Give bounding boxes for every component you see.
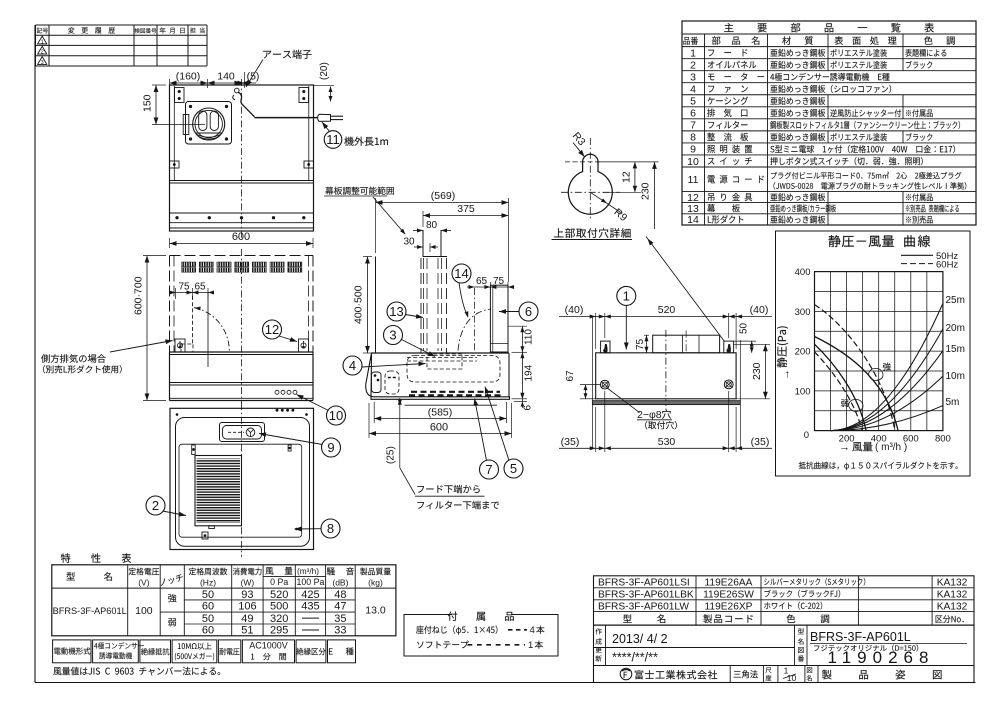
- svg-text:194: 194: [524, 364, 535, 381]
- dimension 75 65: [175, 288, 177, 299]
- power cord plug: [318, 114, 331, 121]
- svg-text:33: 33: [334, 625, 346, 637]
- detail title: [554, 228, 631, 238]
- svg-text:KA132: KA132: [937, 589, 968, 600]
- legend 60Hz: [901, 263, 933, 265]
- dimension 600 side: [368, 403, 370, 438]
- characteristics table: [52, 565, 396, 636]
- svg-text:(35): (35): [561, 436, 580, 448]
- svg-text:20m: 20m: [946, 323, 965, 334]
- svg-text:51: 51: [241, 625, 253, 637]
- phi8 mounting hole left: [600, 380, 609, 389]
- svg-text:(m³/h): (m³/h): [297, 566, 319, 576]
- svg-text:6: 6: [525, 304, 532, 319]
- svg-text:(20): (20): [319, 62, 330, 80]
- accessory screw line: [416, 625, 497, 634]
- shutter swing chain arc: [458, 309, 491, 351]
- side exhaust note: [41, 354, 106, 363]
- svg-text:75: 75: [178, 282, 190, 293]
- makeita top edge solid: [423, 256, 447, 258]
- balloon 12 hanging bracket: [263, 320, 282, 339]
- svg-text:2: 2: [41, 50, 44, 56]
- motor dashed: [427, 354, 462, 369]
- svg-text:→: →: [780, 369, 792, 380]
- oil panel seam: [179, 444, 302, 537]
- svg-text:119E26SW: 119E26SW: [703, 589, 754, 600]
- svg-text:60: 60: [202, 601, 214, 613]
- svg-text:119E26AA: 119E26AA: [705, 577, 753, 588]
- left hanging bracket front: [175, 339, 185, 352]
- detail centerlines: [589, 138, 591, 219]
- svg-text:6: 6: [690, 108, 696, 120]
- svg-text:93: 93: [241, 589, 253, 601]
- balloon 3 motor: [384, 326, 403, 345]
- lamp housing dashed: [385, 371, 399, 394]
- exhaust duct circle: [193, 108, 225, 140]
- svg-text:25m: 25m: [946, 295, 965, 306]
- bottom rectifier band wider than rear panel: [592, 401, 740, 405]
- dimension 30: [414, 246, 423, 248]
- svg-text:3: 3: [389, 328, 396, 343]
- svg-text:5: 5: [690, 96, 696, 108]
- dimension 600 width: [169, 238, 171, 248]
- static pressure vs air volume graph box: [776, 231, 971, 476]
- balloon 11 power cord: [324, 131, 342, 149]
- balloon 4 fan: [343, 356, 362, 375]
- svg-text:119E26XP: 119E26XP: [705, 601, 753, 612]
- balloon 6 shutter: [519, 302, 538, 321]
- dimension 65 75 shutter: [489, 282, 491, 290]
- filter bottom latch: [209, 526, 215, 529]
- svg-text:8: 8: [690, 132, 696, 144]
- svg-text:2−φ8: 2−φ8: [637, 409, 662, 421]
- svg-text:100: 100: [795, 386, 811, 397]
- detail leader to rear view: [646, 237, 725, 342]
- svg-text:4: 4: [530, 625, 535, 636]
- svg-text:50: 50: [202, 589, 214, 601]
- exhaust duct adapter square: [186, 102, 232, 145]
- fan curve weak 60Hz dashed: [815, 352, 863, 431]
- svg-text:KA132: KA132: [937, 601, 968, 612]
- svg-text:(35): (35): [751, 436, 770, 448]
- svg-text:13: 13: [389, 304, 403, 319]
- dimension 110: [508, 325, 527, 327]
- parts table header: [683, 37, 698, 45]
- svg-text:400: 400: [795, 267, 811, 278]
- svg-text:35: 35: [334, 613, 346, 625]
- side small parts near front: [372, 372, 382, 393]
- dimension (160) 140 (5): [169, 79, 171, 85]
- duct stub: [422, 230, 424, 257]
- hood body sides: [169, 352, 171, 401]
- dimension (585): [373, 402, 375, 423]
- svg-text:3: 3: [41, 60, 44, 66]
- svg-text:295: 295: [270, 625, 288, 637]
- svg-text:BFRS-3F-AP601LBK: BFRS-3F-AP601LBK: [598, 589, 694, 600]
- svg-text:60: 60: [202, 625, 214, 637]
- legend 50Hz: [901, 254, 933, 256]
- balloon 8 rectifier panel: [295, 528, 322, 530]
- svg-text:6: 6: [523, 405, 534, 411]
- svg-text:(Hz): (Hz): [200, 578, 216, 588]
- makeita duct cover dashed side: [420, 258, 422, 353]
- svg-text:435: 435: [301, 601, 319, 613]
- svg-text:75: 75: [635, 338, 646, 350]
- svg-text:4: 4: [349, 358, 356, 373]
- svg-text:(V): (V): [138, 578, 150, 588]
- graph grid: [830, 272, 832, 431]
- svg-text:BFRS-3F-AP601L: BFRS-3F-AP601L: [53, 606, 127, 616]
- outlet centerline chain: [474, 288, 476, 352]
- hood bottom to filter note: [400, 468, 415, 495]
- weak label cloud: [841, 399, 848, 407]
- hood body side profile: [372, 352, 510, 354]
- side duct position dashed: [181, 344, 193, 352]
- duct shutter detail: [199, 111, 207, 131]
- strong label cloud: [883, 363, 891, 371]
- svg-text:2: 2: [690, 59, 696, 71]
- air volume note: [53, 667, 220, 676]
- svg-text:BFRS-3F-AP601LSI: BFRS-3F-AP601LSI: [598, 577, 690, 588]
- svg-text:11: 11: [688, 174, 699, 186]
- svg-text:520: 520: [270, 589, 288, 601]
- svg-text:(dB): (dB): [332, 578, 348, 588]
- balloon 9 lamp: [322, 438, 341, 457]
- hood body top edge: [170, 351, 314, 353]
- L-duct swing arc dashed: [194, 308, 229, 352]
- fan curve strong 60Hz dashed: [815, 305, 895, 431]
- svg-text:14: 14: [454, 266, 468, 281]
- side view rear edge line: [375, 257, 377, 354]
- svg-text:7: 7: [485, 462, 492, 477]
- keyhole slot box right: [724, 341, 734, 353]
- balloon 13 makeita: [387, 302, 406, 321]
- svg-text:230: 230: [640, 182, 652, 200]
- filter with slots: [195, 456, 242, 526]
- dimension 12: [597, 161, 659, 163]
- svg-text:300: 300: [795, 307, 811, 318]
- svg-text:67: 67: [565, 370, 576, 382]
- svg-text:2: 2: [152, 498, 159, 513]
- svg-text:600: 600: [232, 231, 250, 243]
- svg-text:600: 600: [430, 422, 448, 434]
- balloon 14 scroll: [452, 264, 471, 283]
- side tab right: [304, 161, 314, 168]
- svg-text:BFRS-3F-AP601L: BFRS-3F-AP601L: [810, 630, 911, 644]
- rear band lines of plan view: [170, 180, 314, 182]
- filter bottom edge below hood: [405, 404, 498, 406]
- rear view centerline: [665, 330, 667, 410]
- svg-text:(kg): (kg): [368, 578, 383, 588]
- svg-text:530: 530: [658, 436, 676, 448]
- power cord: [239, 93, 255, 117]
- svg-text:30: 30: [403, 237, 415, 248]
- duct resistance curves: [830, 303, 943, 430]
- sheet frame left border: [34, 25, 36, 683]
- dimension 6: [514, 401, 527, 403]
- svg-text:100 Pa: 100 Pa: [296, 577, 324, 587]
- svg-text:50: 50: [739, 322, 750, 334]
- dimension 600-700 height: [143, 255, 166, 257]
- svg-text:****/**/**: ****/**/**: [612, 651, 658, 665]
- svg-text:150: 150: [142, 94, 154, 112]
- svg-text:9: 9: [327, 440, 334, 455]
- phi8 mounting hole right: [724, 380, 733, 389]
- oil panel outer rounded rect: [176, 418, 310, 547]
- svg-text:500: 500: [270, 601, 288, 613]
- makeita duct cover dashed outline: [170, 255, 314, 257]
- characteristics table title: [61, 553, 131, 562]
- corner screws: [176, 413, 179, 416]
- panel latch right: [288, 445, 291, 451]
- svg-text:140: 140: [217, 71, 235, 83]
- belmouth casing dashed: [407, 356, 500, 383]
- svg-text:1: 1: [690, 47, 696, 59]
- svg-text:520: 520: [658, 304, 676, 316]
- plan view (top view) of range hood: [170, 85, 314, 231]
- panel latch left: [192, 445, 196, 455]
- parts table title: [724, 23, 934, 32]
- switch dots seen from below: [276, 409, 279, 412]
- exhaust duct rear: [653, 335, 720, 353]
- dimension (40) 520 (40): [595, 313, 597, 349]
- svg-text:400·500: 400·500: [353, 285, 365, 324]
- graph plot frame: [815, 272, 943, 431]
- dimension 194: [512, 351, 528, 353]
- radius R3 label: [573, 143, 585, 157]
- motor spec row: [53, 640, 91, 663]
- svg-text:15m: 15m: [946, 344, 965, 355]
- svg-text:(40): (40): [750, 304, 769, 316]
- svg-text:49: 49: [241, 613, 253, 625]
- svg-text:425: 425: [301, 589, 319, 601]
- svg-text:60Hz: 60Hz: [936, 260, 958, 271]
- side tab left: [170, 161, 180, 168]
- svg-text:12: 12: [621, 171, 633, 183]
- svg-text:50: 50: [202, 613, 214, 625]
- accessory soft tape line: [417, 641, 469, 649]
- dimension 67: [580, 384, 600, 386]
- dimension 375: [422, 211, 424, 227]
- svg-text:100: 100: [135, 605, 153, 617]
- svg-text:4: 4: [690, 84, 696, 96]
- vent slots hatched: [182, 262, 302, 272]
- svg-text:14: 14: [687, 214, 699, 226]
- svg-text:7: 7: [690, 120, 696, 132]
- svg-text:1: 1: [528, 640, 533, 651]
- right hanging bracket front: [299, 339, 309, 352]
- rear view of range hood: [596, 353, 736, 399]
- earth terminal: [235, 88, 240, 93]
- accessories box: [404, 615, 558, 657]
- svg-text:( m³/h ): ( m³/h ): [875, 442, 907, 453]
- svg-text:12: 12: [687, 192, 699, 204]
- svg-text:320: 320: [270, 613, 288, 625]
- dimension 230 rear: [734, 343, 770, 345]
- svg-text:(W): (W): [241, 578, 255, 588]
- sheet frame bottom border: [35, 682, 976, 684]
- svg-text:47: 47: [334, 601, 346, 613]
- svg-text:1190268: 1190268: [828, 648, 935, 667]
- fujioh logo: [620, 668, 632, 680]
- svg-text:11: 11: [326, 132, 340, 147]
- svg-text:(160): (160): [176, 71, 201, 83]
- svg-text:(585): (585): [428, 407, 453, 419]
- makeita adjustable range note: [325, 187, 394, 195]
- svg-text:75: 75: [493, 276, 505, 287]
- switch buttons: [275, 390, 279, 394]
- svg-text:800: 800: [935, 434, 951, 445]
- svg-text:5: 5: [510, 461, 517, 476]
- product variation table: [594, 576, 975, 625]
- svg-text:10m: 10m: [946, 371, 965, 382]
- company name: [635, 670, 717, 679]
- svg-text:12: 12: [265, 322, 279, 337]
- dimension (35) 530 (35): [595, 407, 597, 452]
- svg-text:0: 0: [804, 430, 809, 441]
- graph title: [829, 235, 894, 247]
- dimension 400-500: [363, 256, 372, 258]
- svg-text:(569): (569): [431, 190, 456, 202]
- bottom company row: [729, 666, 731, 683]
- svg-text:10: 10: [329, 408, 343, 423]
- graph note: [799, 462, 958, 471]
- plan view centerline: [241, 79, 243, 238]
- main parts list table: [682, 21, 976, 225]
- bottom view centerline: [241, 403, 243, 557]
- front silhouette extension lines: [591, 317, 593, 401]
- balloon 5 casing: [504, 459, 523, 478]
- updated date row: [596, 647, 602, 653]
- svg-text:2013/ 4/ 2: 2013/ 4/ 2: [612, 632, 668, 646]
- svg-text:1: 1: [41, 39, 44, 45]
- svg-text:600·700: 600·700: [133, 276, 145, 315]
- fan curve strong 50Hz: [815, 337, 899, 431]
- svg-text:375: 375: [457, 203, 475, 215]
- svg-text:106: 106: [238, 601, 256, 613]
- svg-text:(40): (40): [565, 304, 584, 316]
- fan curve weak 50Hz: [815, 344, 867, 430]
- svg-text:48: 48: [334, 589, 346, 601]
- balloon 2 oil panel: [146, 496, 165, 515]
- bottom view of range hood: [170, 408, 314, 549]
- top mounting hole detail keyhole shape: [568, 154, 612, 214]
- dimension 75 duct height: [644, 334, 649, 336]
- svg-text:0 Pa: 0 Pa: [270, 577, 288, 587]
- svg-text:BFRS-3F-AP601LW: BFRS-3F-AP601LW: [598, 601, 689, 612]
- svg-text:230: 230: [751, 362, 763, 380]
- hanging bracket top-right: [299, 88, 309, 103]
- svg-text:13: 13: [687, 203, 699, 215]
- svg-text:(25): (25): [386, 446, 397, 464]
- dimension 150: [152, 84, 166, 86]
- balloon 7 filter: [480, 460, 499, 479]
- svg-text:3: 3: [690, 72, 696, 84]
- svg-text:9: 9: [690, 144, 696, 156]
- svg-text:65: 65: [194, 282, 206, 293]
- dimension (569): [375, 198, 377, 253]
- svg-text:65: 65: [476, 276, 488, 287]
- svg-text:10: 10: [687, 156, 699, 168]
- svg-text:KA132: KA132: [937, 577, 968, 588]
- title block: [594, 625, 975, 682]
- shutter exhaust outlet box: [490, 285, 508, 352]
- dimension 230 from hole: [654, 162, 656, 229]
- svg-text:AC1000V: AC1000V: [249, 641, 288, 651]
- filter slots bold dashes: [411, 391, 500, 393]
- keyhole slot box left: [601, 341, 610, 353]
- svg-text:110: 110: [524, 329, 535, 345]
- lamp unit box: [220, 423, 265, 442]
- earth terminal label: [263, 50, 311, 59]
- dimension 50: [734, 340, 756, 342]
- revision history table: [36, 24, 208, 26]
- dimension 80: [413, 230, 423, 232]
- svg-text:1: 1: [623, 288, 630, 303]
- hood body mid seam: [170, 382, 314, 384]
- radius R9 label: [590, 192, 621, 213]
- dimension (25) filter depth: [399, 398, 401, 468]
- svg-text:5m: 5m: [946, 397, 960, 408]
- created date row: [595, 628, 601, 634]
- hanging bracket top-left: [175, 88, 185, 103]
- front view centerline: [241, 249, 243, 404]
- balloon 1 hood: [617, 286, 636, 305]
- lamp symbol: [246, 428, 255, 437]
- svg-text:8: 8: [327, 521, 334, 536]
- svg-text:13.0: 13.0: [365, 605, 386, 617]
- svg-text:200: 200: [795, 347, 811, 358]
- svg-text:→: →: [839, 442, 850, 454]
- characteristics header: [66, 572, 112, 581]
- balloon 10 switch: [327, 406, 346, 425]
- svg-text:80: 80: [426, 220, 438, 231]
- hood body bottom edge: [170, 397, 314, 399]
